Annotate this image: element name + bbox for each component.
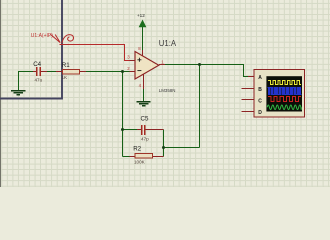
svg-text:47p: 47p [141, 137, 149, 142]
junction node at output [198, 63, 201, 66]
capacitor C4 [33, 61, 47, 83]
wire +12 supply to op-amp pin 8 [142, 26, 144, 51]
svg-text:LM358N: LM358N [159, 88, 176, 93]
wire feedback horizontal [164, 147, 200, 149]
waveform channel A yellow [268, 81, 301, 85]
junction node at C5 branch [121, 128, 124, 131]
svg-text:R2: R2 [133, 145, 141, 152]
pin D [242, 111, 254, 113]
svg-text:D: D [258, 110, 262, 116]
wire feedback vertical to output [199, 65, 201, 148]
svg-text:R1: R1 [62, 62, 70, 69]
svg-text:C5: C5 [141, 115, 149, 122]
wire feedback tap vertical [122, 72, 124, 157]
scope screen [266, 76, 302, 111]
waveform channel B blue [267, 88, 301, 95]
pin A [248, 76, 254, 78]
ground [136, 102, 150, 106]
wire to R2 left [123, 156, 131, 158]
junction node at inverting input [121, 70, 124, 73]
pin B [242, 88, 254, 90]
power terminal +12 [137, 13, 146, 27]
svg-text:B: B [258, 87, 262, 93]
waveform channel D green [267, 105, 301, 110]
svg-text:C: C [258, 98, 262, 104]
pin C [242, 99, 254, 101]
wire ground1 to C4 [19, 72, 37, 91]
resistor R2 [130, 145, 164, 164]
wire op-amp pin 4 to ground [143, 88, 145, 101]
junction node at feedback [162, 146, 165, 149]
op-amp U1:A [127, 39, 177, 93]
wire C4 to op-amp pin 2 [40, 71, 135, 73]
svg-text:100K: 100K [134, 159, 146, 164]
wire to C5 left [123, 129, 138, 131]
svg-text:A: A [258, 75, 262, 81]
resistor R1 [56, 62, 86, 80]
capacitor C5 [137, 115, 164, 141]
oscilloscope [242, 70, 305, 118]
voltage probe U1:A(+IP) [31, 33, 74, 43]
wire probe net to op-amp pin 3 [60, 45, 131, 61]
svg-text:U1:A: U1:A [159, 39, 177, 48]
scope body [254, 70, 305, 118]
waveform channel C red [268, 97, 301, 102]
svg-text:C4: C4 [33, 61, 41, 68]
ground [11, 91, 26, 95]
svg-text:1K: 1K [62, 75, 69, 80]
wire C5/R2 right vertical [163, 130, 165, 157]
svg-text:U1:A(+IP): U1:A(+IP) [31, 33, 53, 39]
wire output to scope channel A [164, 65, 248, 77]
svg-text:47u: 47u [35, 77, 43, 82]
svg-text:+12: +12 [137, 13, 145, 18]
